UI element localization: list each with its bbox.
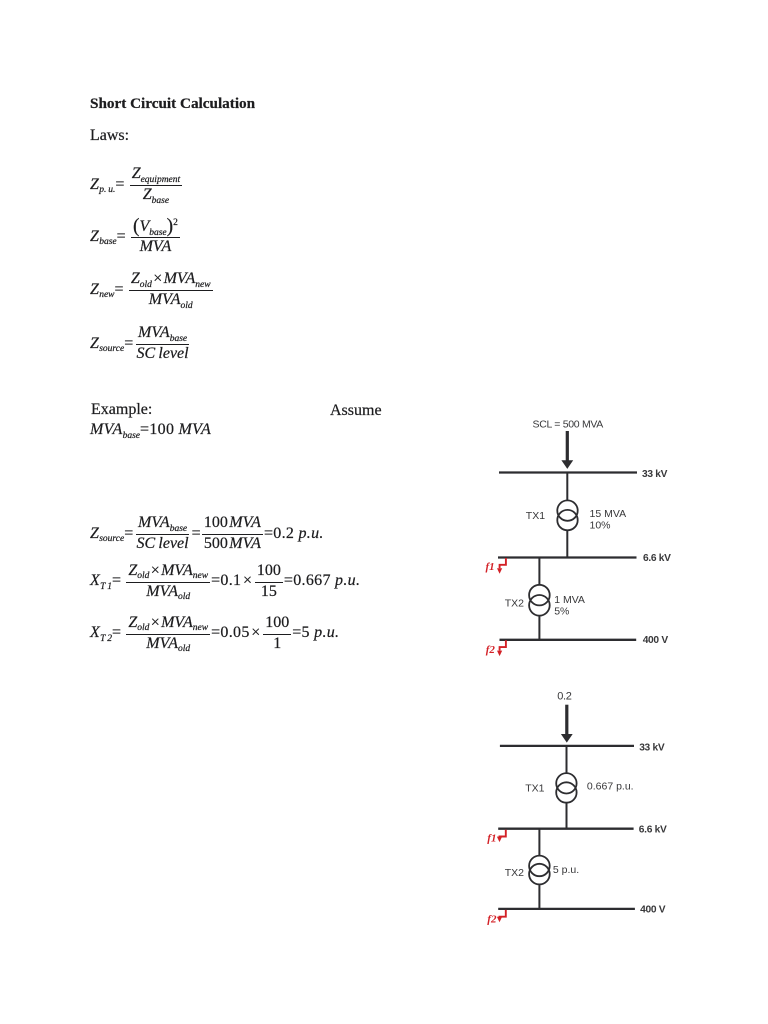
svg-text:0.2: 0.2 <box>557 691 572 703</box>
svg-text:TX2: TX2 <box>505 598 524 610</box>
svg-text:400 V: 400 V <box>643 635 669 646</box>
svg-text:6.6 kV: 6.6 kV <box>643 553 671 564</box>
svg-text:33 kV: 33 kV <box>642 469 668 480</box>
svg-text:33 kV: 33 kV <box>639 743 665 754</box>
svg-text:0.667 p.u.: 0.667 p.u. <box>587 781 634 793</box>
svg-text:f1: f1 <box>486 561 495 573</box>
svg-text:TX1: TX1 <box>526 510 545 522</box>
svg-text:f1: f1 <box>487 833 496 845</box>
svg-text:400 V: 400 V <box>640 905 666 916</box>
svg-text:10%: 10% <box>590 520 611 532</box>
svg-text:TX2: TX2 <box>505 867 524 879</box>
svg-text:15 MVA: 15 MVA <box>590 508 627 520</box>
svg-text:5 p.u.: 5 p.u. <box>553 864 579 876</box>
svg-text:SCL = 500 MVA: SCL = 500 MVA <box>533 419 604 431</box>
svg-text:6.6 kV: 6.6 kV <box>639 825 667 836</box>
svg-text:f2: f2 <box>487 914 497 926</box>
svg-text:5%: 5% <box>554 606 569 618</box>
svg-text:TX1: TX1 <box>525 783 544 795</box>
svg-text:f2: f2 <box>486 644 496 656</box>
svg-text:1 MVA: 1 MVA <box>554 594 585 606</box>
